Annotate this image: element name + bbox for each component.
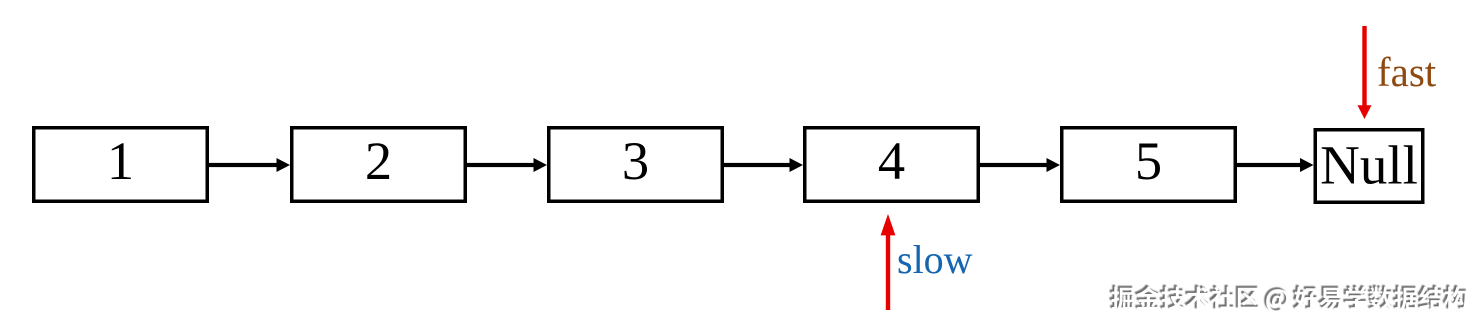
watermark white layer bbox=[1111, 287, 1467, 313]
svg-text:2: 2 bbox=[365, 130, 392, 191]
wire arrow 1 to 2 bbox=[209, 158, 290, 172]
node 1 box bbox=[34, 128, 208, 202]
svg-text:fast: fast bbox=[1377, 49, 1437, 95]
svg-text:slow: slow bbox=[897, 237, 973, 282]
node 4 box bbox=[805, 128, 979, 202]
node 3 box bbox=[549, 128, 723, 202]
wire arrow 5 to Null bbox=[1237, 158, 1314, 172]
svg-text:Null: Null bbox=[1320, 135, 1418, 196]
watermark shadow layer bbox=[1109, 285, 1465, 311]
svg-text:5: 5 bbox=[1135, 130, 1162, 191]
svg-text:3: 3 bbox=[622, 130, 649, 191]
node Null box bbox=[1315, 130, 1423, 203]
svg-text:1: 1 bbox=[107, 130, 134, 191]
node 5 box bbox=[1062, 128, 1236, 202]
wire arrow 3 to 4 bbox=[724, 158, 803, 172]
wire arrow 4 to 5 bbox=[980, 158, 1060, 172]
slow pointer arrow (red, up) bbox=[881, 214, 896, 310]
node 2 box bbox=[292, 128, 466, 202]
fast pointer arrow (red, down) bbox=[1358, 26, 1372, 119]
svg-text:4: 4 bbox=[878, 130, 905, 191]
wire arrow 2 to 3 bbox=[467, 158, 547, 172]
